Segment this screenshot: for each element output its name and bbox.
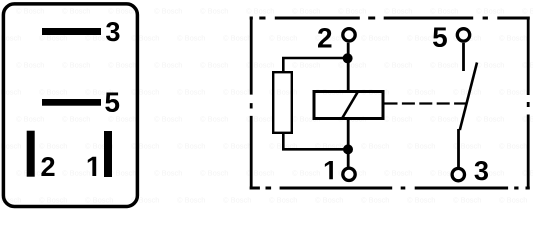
svg-text:© Bosch: © Bosch bbox=[223, 88, 251, 97]
svg-text:© Bosch: © Bosch bbox=[108, 115, 136, 124]
svg-text:© Bosch: © Bosch bbox=[499, 196, 527, 205]
svg-text:© Bosch: © Bosch bbox=[476, 61, 504, 70]
resistor R bbox=[273, 72, 292, 133]
svg-text:© Bosch: © Bosch bbox=[361, 142, 389, 151]
svg-text:© Bosch: © Bosch bbox=[476, 115, 504, 124]
wire resistor bottom to node B bbox=[283, 134, 347, 150]
frame left (phantom line) bbox=[250, 16, 253, 189]
svg-text:© Bosch: © Bosch bbox=[384, 169, 412, 178]
svg-text:© Bosch: © Bosch bbox=[338, 61, 366, 70]
pin 2 blade bbox=[27, 131, 35, 177]
svg-text:© Bosch: © Bosch bbox=[177, 196, 205, 205]
svg-text:© Bosch: © Bosch bbox=[407, 142, 435, 151]
svg-text:© Bosch: © Bosch bbox=[246, 7, 274, 16]
svg-text:© Bosch: © Bosch bbox=[131, 142, 159, 151]
svg-text:© Bosch: © Bosch bbox=[499, 34, 527, 43]
wire node B to terminal 1 bbox=[347, 149, 350, 167]
wire node A to resistor top bbox=[283, 58, 347, 72]
svg-text:© Bosch: © Bosch bbox=[430, 115, 458, 124]
frame bottom (phantom line) bbox=[250, 186, 530, 189]
svg-text:© Bosch: © Bosch bbox=[62, 169, 90, 178]
svg-text:© Bosch: © Bosch bbox=[154, 61, 182, 70]
node A junction bbox=[343, 53, 353, 63]
coil winding diagonal bbox=[342, 92, 358, 119]
pin 5 blade bbox=[42, 99, 101, 106]
wire node A to coil top bbox=[347, 58, 350, 91]
svg-text:© Bosch: © Bosch bbox=[200, 7, 228, 16]
terminal 5 label bbox=[433, 28, 447, 48]
terminal 2 bbox=[343, 29, 355, 41]
svg-text:© Bosch: © Bosch bbox=[154, 7, 182, 16]
node B junction bbox=[343, 144, 353, 154]
svg-text:© Bosch: © Bosch bbox=[16, 115, 44, 124]
coil actuation dashed link bbox=[385, 102, 467, 104]
svg-text:© Bosch: © Bosch bbox=[223, 196, 251, 205]
pin 1 label bbox=[88, 157, 96, 176]
wire terminal 5 to contact bbox=[462, 43, 465, 71]
relay coil K bbox=[314, 92, 383, 119]
pin 3 label bbox=[106, 22, 120, 41]
svg-text:© Bosch: © Bosch bbox=[62, 61, 90, 70]
svg-text:© Bosch: © Bosch bbox=[85, 196, 113, 205]
wire contact to terminal 3 bbox=[457, 129, 460, 167]
svg-text:© Bosch: © Bosch bbox=[292, 169, 320, 178]
svg-text:© Bosch: © Bosch bbox=[154, 115, 182, 124]
svg-text:© Bosch: © Bosch bbox=[16, 7, 44, 16]
switch blade contact bbox=[460, 63, 477, 131]
svg-text:© Bosch: © Bosch bbox=[177, 142, 205, 151]
relay base outline bbox=[3, 4, 137, 207]
svg-text:© Bosch: © Bosch bbox=[453, 196, 481, 205]
svg-text:© Bosch: © Bosch bbox=[62, 115, 90, 124]
svg-text:© Bosch: © Bosch bbox=[361, 196, 389, 205]
svg-text:© Bosch: © Bosch bbox=[315, 196, 343, 205]
svg-text:© Bosch: © Bosch bbox=[292, 61, 320, 70]
pin 2 label bbox=[41, 157, 54, 176]
svg-text:© Bosch: © Bosch bbox=[223, 34, 251, 43]
terminal 3 label bbox=[475, 161, 489, 180]
svg-text:© Bosch: © Bosch bbox=[522, 7, 533, 16]
pin 1 blade bbox=[104, 131, 112, 177]
terminal 5 bbox=[457, 29, 469, 41]
svg-text:© Bosch: © Bosch bbox=[16, 61, 44, 70]
frame top (phantom line) bbox=[250, 16, 530, 19]
svg-text:© Bosch: © Bosch bbox=[407, 196, 435, 205]
svg-text:© Bosch: © Bosch bbox=[476, 7, 504, 16]
svg-text:© Bosch: © Bosch bbox=[39, 196, 67, 205]
svg-text:© Bosch: © Bosch bbox=[499, 142, 527, 151]
terminal 3 bbox=[452, 168, 464, 180]
svg-text:© Bosch: © Bosch bbox=[200, 61, 228, 70]
svg-text:© Bosch: © Bosch bbox=[177, 88, 205, 97]
pin 3 blade bbox=[42, 28, 101, 35]
svg-text:© Bosch: © Bosch bbox=[384, 7, 412, 16]
svg-text:© Bosch: © Bosch bbox=[361, 34, 389, 43]
svg-text:© Bosch: © Bosch bbox=[108, 169, 136, 178]
svg-text:© Bosch: © Bosch bbox=[384, 115, 412, 124]
terminal 1 label bbox=[325, 161, 333, 179]
svg-text:© Bosch: © Bosch bbox=[177, 34, 205, 43]
svg-text:© Bosch: © Bosch bbox=[430, 61, 458, 70]
svg-text:© Bosch: © Bosch bbox=[453, 88, 481, 97]
svg-text:© Bosch: © Bosch bbox=[39, 142, 67, 151]
svg-text:© Bosch: © Bosch bbox=[407, 34, 435, 43]
terminal 1 bbox=[343, 168, 355, 180]
svg-text:© Bosch: © Bosch bbox=[269, 196, 297, 205]
wire coil bottom to node B bbox=[347, 120, 350, 150]
svg-text:© Bosch: © Bosch bbox=[154, 169, 182, 178]
svg-text:© Bosch: © Bosch bbox=[223, 142, 251, 151]
svg-text:© Bosch: © Bosch bbox=[499, 88, 527, 97]
svg-text:© Bosch: © Bosch bbox=[131, 34, 159, 43]
svg-text:© Bosch: © Bosch bbox=[62, 7, 90, 16]
svg-text:© Bosch: © Bosch bbox=[200, 115, 228, 124]
svg-text:© Bosch: © Bosch bbox=[269, 34, 297, 43]
wire terminal 2 to node A bbox=[347, 43, 350, 58]
svg-text:© Bosch: © Bosch bbox=[407, 88, 435, 97]
svg-text:© Bosch: © Bosch bbox=[108, 7, 136, 16]
pin 5 label bbox=[105, 93, 119, 113]
svg-text:© Bosch: © Bosch bbox=[338, 7, 366, 16]
svg-text:© Bosch: © Bosch bbox=[39, 88, 67, 97]
svg-text:© Bosch: © Bosch bbox=[384, 61, 412, 70]
svg-text:© Bosch: © Bosch bbox=[108, 61, 136, 70]
frame right (phantom line) bbox=[527, 16, 530, 189]
svg-text:© Bosch: © Bosch bbox=[292, 7, 320, 16]
svg-text:© Bosch: © Bosch bbox=[131, 88, 159, 97]
svg-text:© Bosch: © Bosch bbox=[200, 169, 228, 178]
terminal 2 label bbox=[318, 28, 331, 48]
svg-text:© Bosch: © Bosch bbox=[430, 7, 458, 16]
